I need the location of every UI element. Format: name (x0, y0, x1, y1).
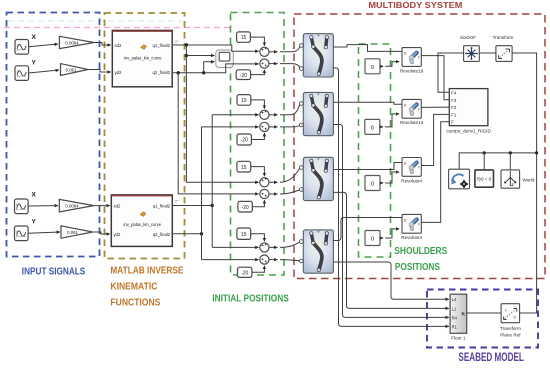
zero constant block 4 (365, 231, 380, 246)
wire Revolute3 F to cuerpo F (421, 122, 449, 223)
wire sum G2b to leg2 port2 (269, 126, 278, 128)
svg-text:Transform: Transform (500, 326, 521, 331)
sum G3a (260, 177, 269, 187)
mechanism configuration block (449, 169, 470, 189)
rigid body block cuerpo_deriv1_RIGID (449, 89, 488, 126)
svg-text:X: X (32, 192, 37, 199)
svg-text:Y: Y (32, 219, 37, 226)
svg-text:F3: F3 (451, 98, 457, 103)
transform frame block (496, 46, 512, 62)
wire Floor R to Transform Plane Ref (467, 312, 501, 314)
wire KIN1 q1_final2 to sum G1a (172, 45, 258, 51)
svg-text:inv_palas_kin_curve: inv_palas_kin_curve (124, 56, 162, 61)
zero constant block 2 (365, 119, 380, 134)
wire 15 to sum G1a (250, 37, 264, 46)
svg-text:L1: L1 (452, 307, 457, 312)
gain G4 0.061 (61, 226, 93, 238)
wire leg4 to Revolute3 B (333, 218, 402, 241)
PS wire zero4 to Revolute3 arrowed segment (380, 237, 383, 239)
transform plane ref block (501, 304, 519, 323)
MATLAB functions dashed box (105, 13, 185, 259)
svg-text:cuerpo_deriv1_RIGID: cuerpo_deriv1_RIGID (446, 128, 491, 133)
wire sum G1b to leg1 port2 (269, 63, 278, 65)
svg-text:q2_final2: q2_final2 (153, 70, 171, 75)
wire q2 to scope input 2 (204, 62, 215, 73)
svg-text:15: 15 (241, 98, 247, 104)
wire -20 to sum G3b (252, 200, 264, 207)
PS wire zero3 to Revolute4 arrowed segment (380, 182, 383, 184)
SEABED MODEL dashed box (427, 290, 538, 348)
leg4 input port circles (299, 240, 303, 263)
svg-text:Floor 1: Floor 1 (451, 335, 466, 340)
svg-text:q2_final2: q2_final2 (153, 232, 171, 237)
svg-text:F1: F1 (451, 112, 457, 117)
junction world line 1 (483, 151, 486, 154)
PS wire zero3 to Revolute4 (385, 172, 399, 183)
wire KIN1 q2_final2 to sum G1b (172, 64, 258, 73)
wire SixDOF to Transform (479, 52, 496, 54)
wire leg1 to Revolute19 B (333, 45, 402, 52)
SHOULDERS POSITIONS inner green dashed box (359, 44, 391, 257)
solver configuration block f(x)=0 (475, 170, 494, 187)
scope block (216, 50, 234, 68)
wire KIN2 q2 vertical (201, 127, 203, 260)
constant -20 (group2) (237, 134, 251, 145)
wire gain3 to KIN2 xd2 (94, 205, 110, 207)
wire leg4 to floor L4 (333, 262, 449, 299)
svg-text:Revolute19: Revolute19 (400, 68, 424, 73)
leg1 input port circles (299, 44, 303, 71)
svg-text:MATLAB INVERSE: MATLAB INVERSE (110, 266, 183, 277)
wire leg2 to Revolute13 B (333, 102, 402, 104)
PS wire zero4 to Revolute3 (385, 229, 399, 238)
sine wave source 2 (15, 66, 29, 81)
wire sum G2a to leg2 port1 (269, 114, 278, 116)
svg-text:+: + (265, 46, 268, 51)
svg-text:MULTIBODY SYSTEM: MULTIBODY SYSTEM (368, 0, 462, 10)
wire leg2 to floor R4 (333, 125, 449, 318)
svg-text:Revolute3: Revolute3 (401, 235, 422, 240)
wire sine4 to gain4 (28, 232, 60, 233)
svg-text:0.0064: 0.0064 (65, 203, 79, 208)
svg-text:inv_palas_kin_curve: inv_palas_kin_curve (124, 222, 162, 227)
wire Revolute19 F to cuerpo F3 (421, 56, 449, 100)
svg-text:F: F (505, 309, 507, 313)
PS wire zero2 to Revolute13 (385, 114, 399, 127)
wire sum G1a to leg1 port1 (269, 51, 278, 53)
wire sum G3b to leg3 port2 (269, 193, 278, 195)
svg-text:+: + (265, 109, 268, 114)
svg-text:SHOULDERS: SHOULDERS (394, 246, 447, 257)
svg-text:SixDOF: SixDOF (460, 35, 476, 40)
svg-text:q1_final2: q1_final2 (153, 204, 171, 209)
wire leg1 to floor R1 (333, 68, 449, 327)
junction world line 2 (509, 151, 512, 154)
INPUT SIGNALS dashed box (7, 13, 100, 257)
wire q1 branch down to group3 (186, 45, 258, 182)
revolute joint Revolute4 (402, 158, 421, 177)
SixDOF joint block (464, 46, 480, 62)
sum G1a (260, 46, 269, 56)
svg-text:FUNCTIONS: FUNCTIONS (110, 298, 160, 309)
constant 15 (group4) (237, 228, 251, 239)
leg subsystem block 1 (303, 34, 333, 77)
svg-text:+: + (265, 242, 268, 247)
sum G2b (260, 122, 269, 131)
revolute joint Revolute13 (402, 99, 421, 118)
svg-text:R4: R4 (452, 316, 458, 321)
wire gain1 to KIN1 xd2 (94, 43, 111, 46)
wire KIN2 q2_final2 (172, 233, 201, 235)
wire sine2 to gain2 (29, 70, 59, 73)
wire KIN2 q2 to sum G4b (202, 259, 259, 261)
constant 15 (group2) (237, 95, 251, 106)
solver stub (483, 153, 485, 170)
junction KIN2 q1 (211, 204, 214, 207)
MULTIBODY SYSTEM dashed box (294, 14, 545, 279)
junction q1 (185, 43, 188, 46)
leg3 input port circles (299, 166, 303, 192)
sum G4a (260, 242, 269, 252)
svg-text:0.0064: 0.0064 (65, 40, 79, 45)
wire KIN2 q1 to sum G2a (212, 114, 258, 116)
sum G4b (260, 255, 269, 264)
svg-text:F2: F2 (451, 105, 457, 110)
annotation mark near KIN2 q1_final2 (175, 201, 180, 203)
svg-text:15: 15 (241, 165, 247, 171)
wire Revolute4 F to cuerpo F1 (421, 114, 449, 165)
wire q2 branch down to group3 (178, 73, 258, 194)
svg-text:+: + (265, 127, 268, 132)
svg-text:L4: L4 (452, 297, 457, 302)
junction world line 3 (535, 151, 538, 154)
svg-text:-20: -20 (241, 138, 248, 144)
svg-text:0.061: 0.061 (66, 67, 77, 72)
world connection line (459, 153, 536, 169)
wire Revolute13 F to cuerpo F2 (421, 106, 449, 108)
junction q1 scope tap (185, 54, 188, 57)
wire KIN2 q1 vertical (211, 115, 213, 248)
wire KIN2 q2 to sum G2b (202, 126, 259, 128)
svg-text:-20: -20 (241, 205, 248, 211)
wire sum G4b to leg4 port2 (269, 259, 278, 261)
svg-text:Plane Ref: Plane Ref (500, 333, 521, 338)
constant -20 (group4) (238, 267, 252, 277)
svg-text:xd2: xd2 (115, 43, 123, 48)
svg-text:KINEMATIC: KINEMATIC (110, 282, 157, 293)
zero constant block 1 (365, 59, 380, 74)
wire KIN2 q1 to sum G4a (212, 246, 258, 248)
svg-text:xd2: xd2 (114, 204, 122, 209)
svg-text:POSITIONS: POSITIONS (395, 262, 440, 273)
zero constant block 3 (365, 176, 380, 191)
wire sine3 to gain3 (28, 205, 58, 207)
svg-text:Revolute13: Revolute13 (400, 120, 424, 125)
svg-text:INITIAL POSITIONS: INITIAL POSITIONS (212, 294, 289, 305)
svg-text:+: + (265, 259, 268, 264)
svg-text:yd2: yd2 (114, 232, 122, 237)
svg-text:q1_final2: q1_final2 (153, 43, 171, 48)
svg-text:X: X (32, 34, 37, 41)
svg-text:Revolute4: Revolute4 (401, 178, 422, 183)
world frame stub (509, 153, 511, 170)
light cyan dashed annotation line (8, 20, 182, 22)
sum G2a (260, 109, 269, 119)
wire leg3 to floor L1 (333, 192, 449, 308)
junction q2 left (177, 71, 180, 74)
wire sum G3a to leg3 port1 (269, 181, 278, 183)
leg subsystem block 2 (303, 92, 333, 135)
svg-text:15: 15 (241, 35, 247, 41)
svg-text:+: + (265, 63, 268, 68)
gain G3 0.0064 (59, 199, 94, 212)
annotation mark near q1_final2 (175, 41, 180, 43)
constant -20 (group1) (236, 70, 250, 80)
gain G2 0.061 (61, 64, 89, 76)
wire KIN2 q1_final2 (172, 205, 212, 207)
wire q1 to scope input 1 (186, 55, 214, 57)
INITIAL POSITIONS dashed box (231, 13, 285, 276)
wire gain4 to KIN2 yd2 (93, 232, 110, 234)
PS wire zero1 to Revolute19 (385, 62, 399, 67)
floor block Floor 1 (450, 294, 467, 333)
gain G1 0.0064 (59, 36, 94, 48)
svg-text:INPUT SIGNALS: INPUT SIGNALS (22, 267, 86, 278)
svg-text:World: World (523, 177, 535, 182)
wire -20 to sum G2b (251, 133, 264, 140)
wire Transform to world vertical (512, 53, 537, 313)
sine wave source 4 (15, 226, 29, 241)
wire -20 to sum G1b (251, 70, 265, 75)
svg-text:R1: R1 (452, 324, 458, 329)
junction q2 scope tap (202, 71, 205, 74)
svg-text:F4: F4 (451, 90, 457, 95)
wire sine1 to gain1 (29, 44, 58, 47)
wire 15 to sum G2a (251, 100, 265, 109)
svg-text:Y: Y (32, 60, 37, 67)
constant -20 (group3) (238, 201, 252, 212)
revolute joint Revolute19 (402, 48, 421, 67)
wire -20 to sum G4b (252, 266, 265, 273)
svg-text:+: + (265, 194, 268, 199)
svg-text:SEABED MODEL: SEABED MODEL (458, 352, 524, 364)
PS wire zero1 to Revolute19 arrowed segment (380, 65, 383, 67)
leg subsystem block 3 (303, 157, 333, 200)
wire sum G4a to leg4 port1 (269, 246, 278, 248)
svg-text:Transform: Transform (493, 35, 514, 40)
sine wave source 1 (15, 40, 29, 55)
subsystem inv_palas_kin_curve 1 (112, 30, 172, 86)
sum G1b (260, 59, 269, 68)
wire 15 to sum G4a (251, 234, 265, 242)
world frame block (501, 170, 520, 188)
svg-text:yd2: yd2 (115, 70, 123, 75)
constant 15 (group3) (237, 161, 251, 172)
svg-text:f(x) = 0: f(x) = 0 (477, 176, 491, 181)
PS wire zero2 to Revolute13 arrowed segment (380, 126, 383, 128)
constant 15 (group1) (237, 32, 251, 42)
leg subsystem block 4 (303, 230, 333, 273)
junction KIN2 q2 (200, 232, 203, 235)
svg-text:15: 15 (241, 232, 247, 238)
svg-text:-20: -20 (241, 271, 248, 277)
pink dashed annotation line (4, 27, 230, 29)
leg2 input port circles (299, 102, 303, 127)
revolute joint Revolute3 (402, 214, 421, 233)
sine wave source 3 (15, 199, 29, 214)
sum G3b (260, 189, 269, 198)
svg-text:F: F (451, 120, 454, 125)
svg-text:+: + (265, 177, 268, 182)
wire gain2 to KIN1 yd2 (88, 70, 111, 73)
wire 15 to sum G3a (251, 167, 265, 177)
wire SixDOF to cuerpo F4 (438, 53, 464, 92)
subsystem inv_palas_kin_curve 2 (111, 195, 172, 247)
wire leg3 to Revolute4 B (333, 163, 402, 170)
svg-text:-20: -20 (240, 73, 247, 79)
svg-text:0.061: 0.061 (67, 230, 78, 235)
